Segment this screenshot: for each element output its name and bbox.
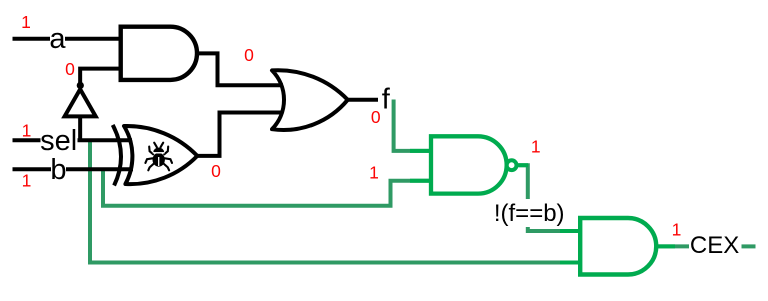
wire a input stub [13,37,51,41]
white box under label !(f==b) [490,199,570,227]
svg-text:sel: sel [40,125,77,157]
bug icon [145,143,172,171]
nand gate U5 (green) [431,136,507,193]
svg-text:1: 1 [22,171,32,191]
net sel to AND2 (green) [90,140,581,262]
wire XOR out to OR [197,113,283,156]
wire stub NAND top input (bright green) [410,149,431,153]
wire b to XOR [66,167,133,171]
svg-text:1: 1 [369,162,379,182]
svg-text:a: a [49,23,66,55]
wire CEX dash (green) [742,244,756,248]
wire sel to XOR [78,138,133,142]
nand gate U5 bubble [507,160,517,170]
svg-text:0: 0 [65,59,75,79]
wire inverter out to AND1 [80,69,122,85]
wire stub AND2 bottom input (bright green) [560,261,581,265]
svg-text:1: 1 [21,12,31,32]
wire stub AND2 output (bright green) [656,244,675,248]
svg-text:f: f [382,84,391,116]
svg-text:1: 1 [672,220,682,240]
svg-text:0: 0 [211,161,221,181]
svg-text:0: 0 [371,107,381,127]
net b to NAND (green) [103,169,431,206]
xor gate U3 body [124,126,197,184]
net f to NAND (green) [394,100,431,151]
svg-text:1: 1 [22,121,32,141]
svg-text:!(f==b): !(f==b) [494,200,565,227]
svg-text:0: 0 [244,45,254,65]
svg-text:CEX: CEX [690,232,739,259]
wire sel junction to inverter [78,116,82,142]
and gate U6 CEX (green) [580,218,656,275]
inverter U2 triangle [65,89,96,116]
inverter bubble / junction dot [77,82,84,89]
wire a to AND1 [65,37,123,41]
wire b input stub [13,167,52,171]
wire stub AND2 top input (bright green) [560,229,581,233]
wire sel input stub [13,138,41,142]
wire CEX output (green) [656,244,689,248]
wire stub NAND bottom input (bright green) [410,179,431,183]
and gate U1 [121,27,197,80]
wire OR out to f [348,98,378,102]
net NAND output to AND2 (green) [519,165,581,231]
svg-text:1: 1 [531,136,541,156]
svg-text:b: b [50,154,66,186]
xor gate U3 extra input arc [113,125,121,186]
or gate U4 [272,70,348,130]
wire stub NAND output (bright green) [517,163,528,167]
wire AND1 out to OR [197,53,283,85]
